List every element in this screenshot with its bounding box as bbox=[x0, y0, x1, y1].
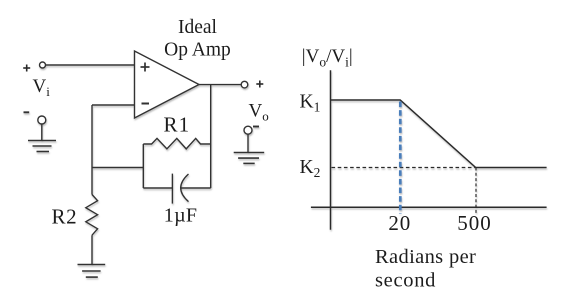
wire feedback right vertical bbox=[210, 85, 212, 188]
ground (R2) bbox=[78, 265, 106, 278]
x-axis bbox=[311, 206, 547, 208]
svg-text:Ideal: Ideal bbox=[178, 17, 218, 38]
resistor R2 bbox=[86, 195, 98, 236]
svg-text:1µF: 1µF bbox=[164, 205, 198, 227]
svg-text:K2: K2 bbox=[300, 157, 321, 180]
input minus sign bbox=[24, 111, 30, 113]
input terminal circle bbox=[40, 62, 46, 68]
wire input to op-amp noninverting input bbox=[46, 64, 135, 66]
svg-text:20: 20 bbox=[388, 211, 411, 235]
svg-text:K1: K1 bbox=[300, 92, 321, 115]
label: plus at output terminal bbox=[256, 81, 263, 88]
wire op-amp output bbox=[199, 84, 241, 86]
svg-text:500: 500 bbox=[457, 211, 492, 235]
svg-text:R2: R2 bbox=[52, 205, 78, 229]
wire capacitor right lead bbox=[181, 187, 211, 189]
dashed line at K2 level bbox=[332, 167, 476, 169]
svg-text:Vi: Vi bbox=[33, 76, 51, 99]
op-amp U1 bbox=[135, 51, 200, 118]
output minus sign bbox=[253, 126, 259, 128]
dashed line at 500 bbox=[475, 168, 477, 215]
wire left vertical (inverting node) bbox=[91, 105, 93, 195]
wire capacitor left lead bbox=[143, 187, 172, 189]
wire inverting input bbox=[92, 104, 135, 106]
label: plus at input terminal bbox=[23, 65, 30, 72]
wire R2 to ground bbox=[91, 235, 93, 264]
wire feedback network left vertical bbox=[142, 144, 144, 188]
svg-text:R1: R1 bbox=[164, 113, 191, 137]
wire junction to feedback network bbox=[92, 167, 143, 169]
resistor R1 bbox=[143, 138, 210, 149]
svg-text:Op Amp: Op Amp bbox=[164, 39, 231, 60]
y-axis bbox=[330, 70, 332, 229]
svg-text:second: second bbox=[375, 270, 436, 292]
label Radians per second bbox=[375, 246, 476, 292]
capacitor C1 plates bbox=[172, 174, 188, 204]
ground (output) bbox=[234, 126, 265, 163]
svg-text:Vo: Vo bbox=[249, 101, 269, 124]
dashed blue line at 20 bbox=[399, 102, 402, 214]
gain curve bbox=[331, 100, 547, 168]
svg-text:|Vo/Vi|: |Vo/Vi| bbox=[302, 46, 353, 70]
ground (input) bbox=[28, 116, 56, 152]
svg-text:Radians per: Radians per bbox=[375, 246, 476, 268]
label: Ideal Op Amp bbox=[164, 17, 231, 60]
output terminal circle bbox=[241, 81, 248, 88]
